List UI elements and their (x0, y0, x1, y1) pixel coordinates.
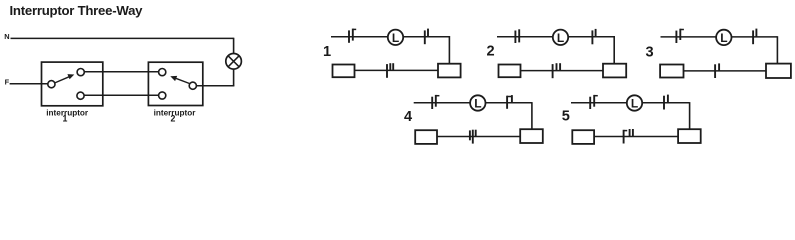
contact C4-A (432, 95, 439, 109)
wire C4 top left (414, 102, 471, 104)
terminal S1 common (48, 81, 55, 88)
wire C3 top left (661, 36, 717, 38)
wire C4 top right (486, 102, 532, 104)
wire C2 bottom (521, 70, 604, 72)
terminal S1 top (77, 69, 84, 76)
wire C5 right drop (689, 102, 691, 129)
switch S1 lever arrow (55, 74, 75, 83)
svg-text:Interruptor Three-Way: Interruptor Three-Way (10, 3, 144, 18)
contact C1-C (387, 63, 393, 78)
wire C4 right drop (531, 102, 533, 129)
svg-text:1: 1 (63, 113, 68, 123)
wire C3 top right (732, 36, 778, 38)
contact C1-B (425, 29, 428, 45)
svg-text:L: L (720, 31, 727, 45)
wire C4 bottom (437, 136, 520, 138)
terminal S1 bottom (77, 92, 84, 99)
contact C2-C (553, 63, 561, 78)
contact C2-A (515, 29, 519, 43)
contact C1-A (349, 29, 356, 43)
label interruptor 1 (46, 108, 89, 123)
wire N (11, 37, 234, 39)
box C3 left (660, 65, 683, 78)
lamp L4 (470, 95, 485, 110)
wire C3 right drop (776, 36, 778, 63)
switch box S1 (42, 62, 103, 106)
svg-text:L: L (474, 97, 481, 111)
wire C1 top left (331, 36, 388, 38)
svg-text:F: F (5, 78, 10, 87)
contact C3-B (753, 29, 756, 45)
wire traveler top (85, 71, 159, 73)
wire C1 bottom (355, 69, 439, 71)
svg-text:N: N (4, 32, 9, 41)
svg-text:interruptor: interruptor (46, 108, 89, 117)
box C2 left (499, 65, 521, 78)
lamp L2 (553, 30, 568, 45)
terminal S2 top (159, 69, 166, 76)
wire C3 bottom (684, 70, 767, 72)
switch S2 lever arrow (170, 76, 190, 84)
lamp L3 (716, 30, 731, 45)
contact C3-C (715, 63, 719, 78)
svg-text:L: L (631, 97, 638, 111)
contact C5-C (624, 129, 633, 144)
svg-text:4: 4 (404, 109, 413, 125)
svg-text:2: 2 (171, 113, 176, 123)
box C1 left (333, 65, 355, 78)
contact C5-A (590, 95, 598, 109)
terminal S2 common (189, 82, 196, 89)
lamp X1 (226, 54, 242, 70)
wire traveler bottom (84, 94, 158, 96)
box C5 left (572, 130, 594, 144)
wire F (10, 83, 48, 85)
wire N drop to lamp (233, 38, 235, 54)
svg-text:1: 1 (323, 44, 331, 60)
wire C5 top right (642, 102, 689, 104)
box C4 right (520, 129, 543, 143)
switch box S2 (148, 62, 202, 105)
contact C2-B (592, 29, 595, 44)
wire C2 right drop (613, 36, 615, 64)
lamp L1 (388, 30, 403, 45)
wire C1 right drop (448, 36, 450, 64)
box C5 right (678, 129, 701, 143)
contact C3-A (676, 29, 684, 43)
lamp L5 (627, 95, 642, 110)
svg-text:2: 2 (486, 43, 494, 59)
wire C1 top right (403, 36, 449, 38)
svg-text:3: 3 (645, 45, 653, 61)
wire C2 top left (497, 36, 553, 38)
wire C2 top right (568, 36, 614, 38)
wire lamp to switch 2 common (197, 69, 235, 86)
box C2 right (603, 64, 626, 78)
terminal S2 bottom (159, 92, 166, 99)
box C4 left (415, 130, 437, 144)
contact C4-C (470, 130, 476, 144)
svg-text:L: L (557, 31, 564, 45)
wire C5 top left (571, 102, 627, 104)
box C3 right (766, 64, 791, 78)
svg-text:L: L (392, 31, 399, 45)
contact C5-B (664, 95, 668, 110)
box C1 right (438, 64, 461, 78)
svg-text:5: 5 (562, 109, 570, 125)
label interruptor 2 (154, 108, 197, 123)
contact C4-B (507, 95, 512, 109)
wire C5 bottom (594, 136, 678, 138)
